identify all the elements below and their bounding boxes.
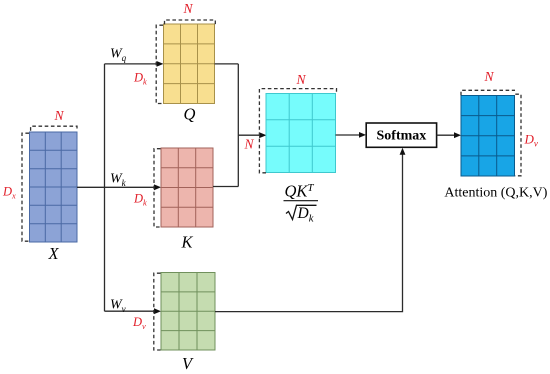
bracket Dk left of Q [156, 25, 163, 103]
svg-text:Dk: Dk [133, 71, 147, 87]
wire Wk arrow to K [105, 186, 155, 188]
svg-text:Wq: Wq [110, 47, 127, 64]
svg-text:V: V [182, 354, 194, 373]
svg-text:Dk: Dk [133, 192, 147, 208]
wire Wv arrow to V [105, 310, 155, 312]
wire X output [77, 186, 105, 188]
svg-text:QKT: QKT [285, 182, 315, 201]
svg-text:N: N [243, 137, 254, 152]
svg-text:Dv: Dv [524, 132, 538, 149]
matrix X (input, blue 3x6) [30, 132, 78, 242]
wire QK join vertical [237, 64, 239, 187]
matrix Attention (bright blue 3x4) [461, 96, 515, 177]
bracket N over Attention and Dv right [461, 90, 515, 95]
wire V output to Softmax bottom [215, 155, 403, 312]
wire Wq arrow to Q [105, 63, 157, 65]
svg-text:Dv: Dv [132, 315, 146, 331]
wire Softmax to Attention [437, 134, 454, 136]
matrix Q (yellow 3x4) [164, 24, 215, 104]
svg-text:N: N [483, 69, 494, 84]
Softmax box [366, 123, 436, 147]
svg-text:Wv: Wv [110, 298, 126, 315]
svg-text:N: N [182, 1, 193, 16]
bracket N over Q [165, 20, 216, 25]
wire branch vertical [104, 64, 106, 311]
svg-text:N: N [53, 108, 64, 123]
svg-text:Attention (Q,K,V): Attention (Q,K,V) [444, 186, 547, 201]
wire K output [213, 186, 238, 188]
svg-text:N: N [295, 72, 306, 87]
bracket N over X [31, 126, 77, 131]
matrix V (green 3x4) [161, 273, 215, 351]
wire arrow into QK^T matrix [238, 134, 259, 136]
bracket Dx left of X [22, 133, 29, 241]
svg-text:Softmax: Softmax [377, 129, 427, 144]
matrix K (pink 3x4) [161, 148, 213, 227]
wire QK^T to Softmax [336, 134, 360, 136]
svg-text:Q: Q [184, 105, 196, 124]
svg-text:Wk: Wk [110, 172, 127, 189]
bracket Dv left of V [154, 273, 161, 350]
bracket N+left of QK^T [259, 89, 336, 173]
matrix QK^T/sqrt(Dk) (cyan 3x3) [266, 94, 336, 173]
svg-text:Dk: Dk [297, 205, 314, 225]
label fraction QK^T / sqrt(Dk) [284, 182, 319, 225]
svg-text:K: K [180, 232, 193, 251]
svg-text:Dx: Dx [2, 185, 16, 201]
svg-text:X: X [47, 244, 59, 263]
bracket Dk left of K [154, 149, 161, 227]
wire Q output [215, 63, 239, 65]
